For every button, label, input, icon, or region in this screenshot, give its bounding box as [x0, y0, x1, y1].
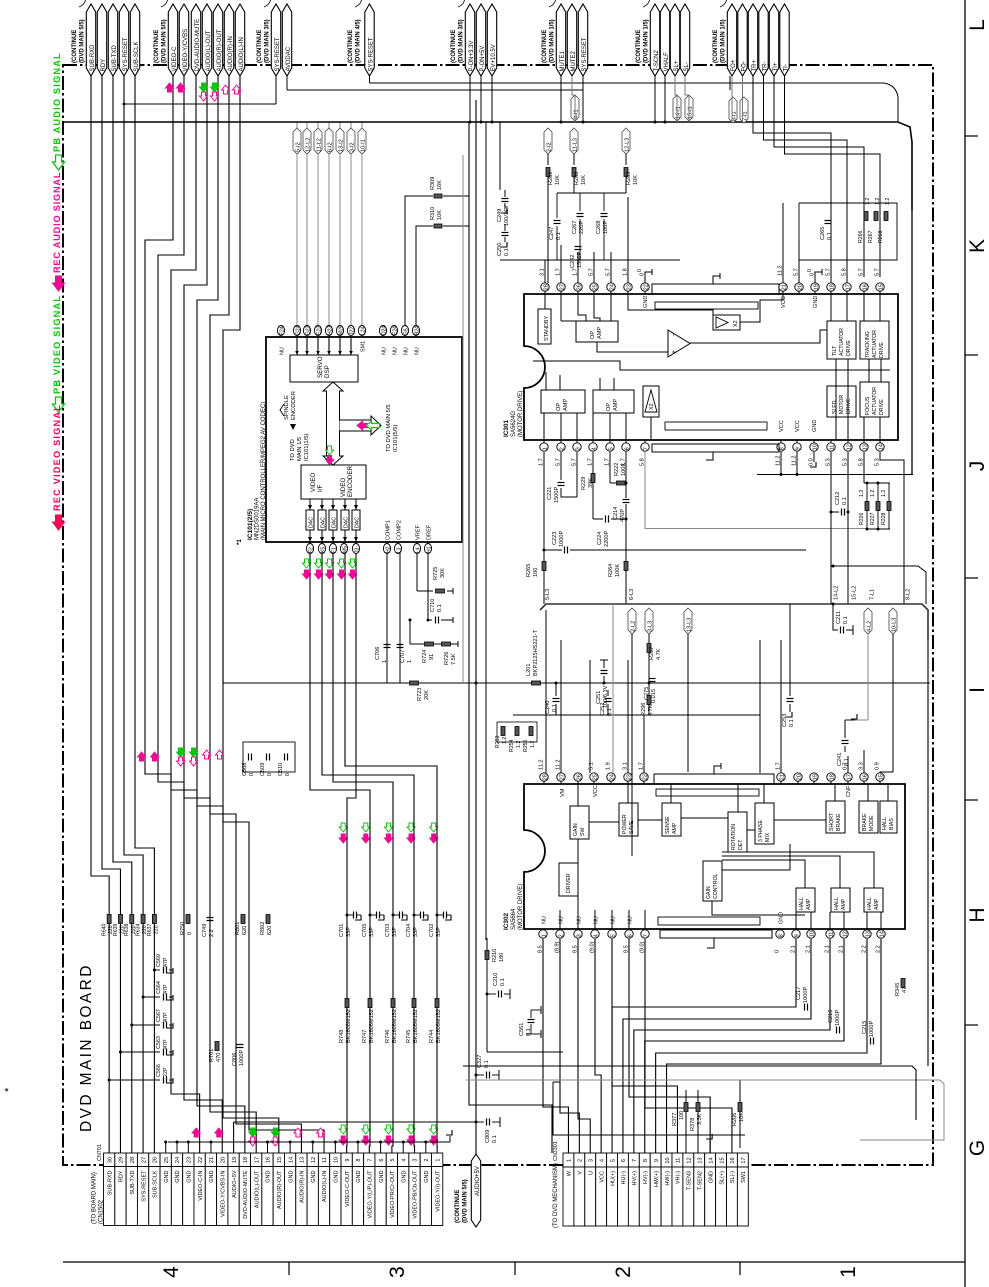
svg-text:(MOTOR DRIVE): (MOTOR DRIVE): [518, 884, 524, 930]
svg-text:(DVD MAIN 3/5): (DVD MAIN 3/5): [459, 19, 465, 63]
svg-text:VCC: VCC: [781, 296, 787, 308]
svg-text:0: 0: [775, 950, 781, 953]
svg-text:47: 47: [902, 987, 908, 993]
svg-text:0: 0: [285, 773, 291, 776]
block POWER SAVE: [619, 803, 638, 836]
svg-text:(DVD MAIN 5/5): (DVD MAIN 5/5): [463, 1179, 469, 1223]
svg-text:OP: OP: [556, 403, 562, 411]
block HALL BIAS: [880, 801, 897, 833]
svg-text:GND: GND: [311, 1170, 317, 1182]
top pin AVDDAC: [282, 4, 291, 76]
svg-text:18: 18: [243, 1157, 249, 1163]
svg-text:6: 6: [621, 1159, 627, 1162]
svg-text:3: 3: [588, 1159, 594, 1162]
capacitor C216 1000P: [836, 1027, 838, 1034]
svg-text:C701: C701: [339, 924, 345, 937]
svg-text:CNF: CNF: [846, 785, 852, 797]
svg-text:R288: R288: [574, 172, 580, 185]
wire main horiz y122: [63, 122, 912, 210]
svg-text:10K: 10K: [555, 175, 561, 185]
svg-text:NU: NU: [415, 347, 421, 355]
top pin VIDEO-C: [168, 4, 177, 76]
svg-text:1.2: 1.2: [865, 198, 871, 205]
svg-text:AUDIO+5V: AUDIO+5V: [232, 1170, 238, 1198]
svg-text:FO+: FO+: [731, 59, 737, 71]
resistor R701 470: [215, 1042, 219, 1051]
wire IC301 pin3: [576, 452, 578, 497]
arrows above CN1502 video in: [192, 1128, 200, 1137]
svg-text:AMP: AMP: [874, 898, 880, 910]
svg-text:GND: GND: [266, 1170, 272, 1182]
op-amp triangle (IC301): [668, 330, 690, 357]
top pin AUDIO(L)-OUT: [202, 4, 211, 76]
wires IC301 top feeds: [544, 260, 546, 283]
svg-text:4-L2: 4-L2: [867, 621, 873, 632]
svg-text:CN701: CN701: [97, 1144, 103, 1161]
svg-text:28: 28: [543, 284, 549, 290]
svg-text:GAIN: GAIN: [706, 886, 712, 899]
capacitor C210 0.1: [486, 993, 489, 996]
svg-text:0: 0: [267, 773, 273, 776]
svg-text:19: 19: [232, 1157, 238, 1163]
svg-text:BKP2125HS221-T: BKP2125HS221-T: [533, 629, 539, 676]
block OP AMP 2 (IC301): [541, 390, 585, 413]
top pin EV+10.5V: [487, 4, 496, 76]
svg-text:C224: C224: [597, 532, 603, 545]
svg-text:TO DVD: TO DVD: [290, 439, 296, 461]
svg-text:ROTATION: ROTATION: [731, 824, 737, 850]
capacitor C223 1000P: [564, 547, 566, 554]
svg-text:PB VIDEO SIGNAL: PB VIDEO SIGNAL: [52, 295, 62, 394]
svg-text:SUB-SCLK: SUB-SCLK: [153, 1170, 159, 1198]
svg-text:4.7K: 4.7K: [656, 648, 662, 660]
svg-text:MIX: MIX: [765, 832, 771, 842]
svg-text:1000P: 1000P: [835, 1010, 841, 1026]
wire sys-reset 4/5 link: [369, 76, 371, 83]
svg-text:10K: 10K: [581, 175, 587, 185]
svg-text:5.1: 5.1: [589, 762, 595, 770]
svg-text:AUDIO+5V: AUDIO+5V: [475, 1166, 481, 1196]
resistor R345 47: [901, 979, 905, 988]
svg-text:0.1: 0.1: [789, 719, 795, 727]
svg-text:DVD MAIN BOARD: DVD MAIN BOARD: [78, 963, 95, 1132]
svg-text:R310: R310: [430, 207, 436, 220]
svg-text:C806: C806: [232, 1053, 238, 1066]
svg-text:13-I2: 13-I2: [339, 139, 345, 152]
svg-text:0: 0: [637, 269, 643, 272]
svg-text:1.2: 1.2: [881, 490, 887, 497]
block TRACKING ACTUATOR DRIVE: [860, 321, 889, 359]
svg-text:BK1608M152: BK1608M152: [392, 1009, 398, 1043]
svg-text:SL-: SL-: [684, 62, 690, 71]
svg-text:2: 2: [578, 1159, 584, 1162]
capacitor C561 0.1: [531, 1009, 541, 1011]
wires SL to tags: [675, 76, 677, 122]
wires cap region: [557, 192, 626, 194]
svg-text:H23: H23: [327, 326, 333, 335]
wires hall signals to CN3301: [612, 939, 796, 1153]
svg-text:7.5K: 7.5K: [451, 653, 457, 665]
wires DAC outputs to video out bus: [310, 553, 370, 1153]
svg-text:MUTE1: MUTE1: [560, 51, 566, 72]
wire GND bus CN1502: [168, 1141, 450, 1143]
svg-text:VH(-): VH(-): [676, 1171, 682, 1184]
svg-text:11-L3: 11-L3: [573, 138, 579, 152]
svg-text:R345: R345: [895, 983, 901, 996]
svg-text:C251: C251: [596, 691, 602, 704]
svg-text:R637: R637: [147, 923, 153, 936]
svg-text:(DVD MAIN 1/5): (DVD MAIN 1/5): [550, 19, 556, 63]
connector CN3301 (TO DVD MECHANISM): [563, 1153, 574, 1167]
svg-text:0.1: 0.1: [842, 497, 848, 505]
resistor R723 20K: [410, 681, 419, 685]
svg-text:24: 24: [609, 284, 615, 290]
top pin AUDIO(R)-IN: [224, 4, 233, 76]
capacitors C563-C569: [154, 969, 160, 971]
capacitor C809 0.1: [476, 1121, 484, 1123]
capacitor C806 1000P: [237, 1044, 244, 1046]
svg-text:D24: D24: [381, 326, 387, 335]
top pin SYS-RESET: [578, 4, 587, 76]
svg-text:(DVD MAIN 1/5): (DVD MAIN 1/5): [644, 19, 650, 63]
junction dots y122: [560, 121, 563, 124]
ic IC101 top pins: [277, 326, 284, 336]
svg-text:AMP: AMP: [563, 399, 569, 411]
svg-text:M25: M25: [338, 325, 344, 335]
wire vertical 500: [499, 122, 501, 190]
svg-text:7: 7: [643, 447, 649, 450]
svg-text:9: 9: [345, 1158, 351, 1161]
svg-text:VIDEO-PR/Cr-OUT: VIDEO-PR/Cr-OUT: [390, 1170, 396, 1218]
svg-text:C250: C250: [497, 243, 503, 256]
pad bar IC302 top: [656, 789, 759, 796]
svg-text:21: 21: [209, 1157, 215, 1163]
block HALL AMP 3: [864, 888, 883, 912]
svg-text:R264: R264: [608, 564, 614, 577]
top pin TR-: [759, 4, 768, 76]
svg-text:SUB-TXD: SUB-TXD: [112, 44, 118, 71]
block GAIN SW: [570, 806, 589, 839]
svg-text:MAIN 1/5: MAIN 1/5: [297, 437, 303, 461]
svg-text:47P: 47P: [163, 1039, 169, 1049]
top pin P-ON+3.3V: [465, 4, 474, 76]
svg-text:ACTUATOR: ACTUATOR: [872, 330, 878, 358]
svg-text:3: 3: [386, 1266, 409, 1278]
svg-text:C249: C249: [497, 209, 503, 222]
svg-text:8: 8: [643, 1159, 649, 1162]
svg-text:NU: NU: [628, 916, 634, 924]
block ROTATION DET: [728, 812, 747, 852]
svg-text:C223: C223: [552, 532, 558, 545]
svg-text:18: 18: [829, 284, 835, 290]
capacitor C749 2.2: [207, 917, 214, 919]
top pin SUB-RXD: [86, 4, 95, 76]
top pin SUB-SCLK: [130, 4, 139, 76]
svg-text:0.1: 0.1: [500, 978, 506, 986]
svg-text:R801: R801: [235, 922, 241, 935]
svg-text:1: 1: [407, 660, 413, 663]
net tag 2-L2: [628, 608, 636, 634]
svg-text:G23: G23: [305, 325, 311, 335]
svg-text:R378: R378: [690, 1118, 696, 1131]
net tag 15-I1: [685, 95, 693, 121]
svg-text:10K: 10K: [633, 175, 639, 185]
svg-text:2: 2: [612, 1266, 635, 1278]
wire AUDIO+5V rail: [475, 1122, 477, 1154]
resistors R226 R227 R228 1.2: [866, 482, 890, 484]
wire tag line y604: [540, 604, 928, 640]
svg-text:AUDIO(R)-OUT: AUDIO(R)-OUT: [217, 29, 223, 71]
svg-text:G24: G24: [295, 325, 301, 335]
svg-text:J3: J3: [354, 548, 360, 554]
svg-text:620: 620: [267, 926, 273, 935]
svg-text:*1: *1: [237, 539, 243, 545]
svg-text:COMP2: COMP2: [397, 520, 403, 540]
svg-text:GND: GND: [187, 1170, 193, 1182]
svg-text:1: 1: [567, 1159, 573, 1162]
svg-text:ENCODER: ENCODER: [347, 466, 354, 497]
svg-text:(CONTINUE: (CONTINUE: [542, 30, 548, 63]
svg-text:9: 9: [654, 1159, 660, 1162]
svg-text:14: 14: [879, 931, 885, 937]
svg-text:HW(-): HW(-): [665, 1171, 671, 1186]
svg-text:T-SEN3: T-SEN3: [687, 1171, 693, 1190]
svg-text:TO DVD MAIN 5/5: TO DVD MAIN 5/5: [386, 404, 392, 452]
svg-text:H2: H2: [385, 546, 391, 553]
svg-text:11: 11: [676, 1158, 682, 1164]
svg-text:CN3301: CN3301: [553, 1141, 559, 1161]
top pin SL-: [680, 4, 689, 76]
svg-text:0: 0: [807, 269, 813, 272]
svg-text:R309: R309: [430, 177, 436, 190]
block GAIN CONTROL: [703, 861, 722, 901]
top pin T-SCN2: [650, 4, 659, 76]
svg-text:C508: C508: [242, 763, 248, 776]
svg-text:0.1: 0.1: [504, 248, 510, 256]
svg-text:20: 20: [797, 284, 803, 290]
svg-text:NU: NU: [594, 916, 600, 924]
net tag 11-L3: [570, 128, 578, 154]
bus wires into IC101 servo: [296, 122, 298, 128]
svg-text:8: 8: [356, 1158, 362, 1161]
arrow SERVO-VIDEO bus: [323, 382, 343, 465]
block HALL AMP 2: [831, 888, 850, 912]
ic IC301 top pin row: [541, 283, 549, 291]
top pin AUDIO(R)-OUT: [213, 4, 222, 76]
svg-text:17: 17: [254, 1157, 260, 1163]
svg-text:12: 12: [687, 1157, 693, 1163]
svg-text:DRIVE: DRIVE: [879, 399, 885, 415]
svg-text:27: 27: [141, 1157, 147, 1163]
top pin SYS-RESET: [119, 4, 128, 76]
svg-text:U: U: [588, 1171, 594, 1175]
svg-text:MOTOR: MOTOR: [839, 395, 845, 414]
svg-text:NU: NU: [404, 347, 410, 355]
svg-text:R640: R640: [102, 923, 108, 936]
svg-text:(TO BOARD MAIN): (TO BOARD MAIN): [92, 1172, 98, 1224]
svg-text:(DVD MAIN 5/5): (DVD MAIN 5/5): [80, 19, 86, 63]
wires FO/TR/TI to IC301: [753, 122, 831, 277]
svg-text:C241: C241: [837, 753, 843, 766]
capacitor C252 0.1: [605, 698, 612, 700]
svg-text:SA5664: SA5664: [511, 908, 517, 930]
resistor R206 10K: [738, 1103, 742, 1112]
resistors R253 R254 R255 1.2: [501, 727, 505, 736]
net tag 10-L3: [889, 608, 897, 634]
svg-text:10: 10: [812, 444, 818, 450]
svg-text:SL(+): SL(+): [719, 1171, 725, 1185]
svg-text:2-L2: 2-L2: [631, 621, 637, 632]
resistor R222 100K: [609, 452, 611, 483]
svg-text:16: 16: [730, 1157, 736, 1163]
svg-text:G5: G5: [403, 328, 409, 335]
wire y683 junctions: [475, 682, 478, 685]
capacitor C221 1500P: [560, 452, 562, 480]
svg-text:22: 22: [642, 774, 648, 780]
svg-text:R748: R748: [339, 1030, 345, 1043]
svg-text:HALL: HALL: [882, 817, 888, 830]
svg-text:33P: 33P: [346, 927, 352, 937]
svg-text:100/16V: 100/16V: [504, 205, 510, 226]
svg-text:100: 100: [679, 1111, 685, 1120]
svg-text:VCC: VCC: [593, 785, 599, 797]
svg-text:1500P: 1500P: [554, 487, 560, 503]
wires UVW to CN3301: [543, 939, 568, 1153]
svg-text:47P: 47P: [163, 1012, 169, 1022]
svg-text:(DVD MAIN 1/5): (DVD MAIN 1/5): [721, 19, 727, 63]
svg-text:STANDBY: STANDBY: [544, 316, 550, 341]
svg-text:CONTROL: CONTROL: [713, 874, 719, 899]
svg-text:16: 16: [862, 284, 868, 290]
svg-text:1000P: 1000P: [869, 1021, 875, 1037]
svg-text:10K: 10K: [437, 210, 443, 220]
svg-text:L24: L24: [360, 326, 366, 335]
arrows below AUDIO OUT pins: [200, 83, 208, 92]
wire VCC line y474: [757, 474, 913, 476]
svg-text:1.2: 1.2: [870, 490, 876, 497]
svg-text:18: 18: [829, 774, 835, 780]
svg-text:180: 180: [499, 953, 505, 962]
svg-text:25: 25: [592, 284, 598, 290]
svg-text:24: 24: [609, 774, 615, 780]
svg-text:13: 13: [300, 1157, 306, 1163]
svg-text:9: 9: [794, 934, 800, 937]
svg-text:AUDIO(R)-IN: AUDIO(R)-IN: [300, 1170, 306, 1202]
block SERVO DSP: [290, 355, 358, 382]
svg-text:TILT: TILT: [832, 345, 838, 356]
svg-text:25: 25: [592, 774, 598, 780]
svg-text:10K: 10K: [437, 180, 443, 190]
svg-text:E24: E24: [392, 326, 398, 335]
block TILT ACTUATOR DRIVE: [827, 321, 856, 359]
svg-text:4: 4: [160, 1266, 183, 1278]
svg-text:25: 25: [164, 1157, 170, 1163]
svg-text:IC101(5/5): IC101(5/5): [393, 425, 399, 452]
svg-text:8-L2: 8-L2: [906, 589, 912, 600]
svg-text:C706: C706: [375, 647, 381, 660]
svg-text:1: 1: [382, 660, 388, 663]
arrows mid audio in wires: [203, 750, 211, 759]
top pin TI+: [769, 4, 778, 76]
svg-text:R296: R296: [641, 703, 647, 716]
top pin SYS-RESET: [271, 4, 280, 76]
svg-text:13-L3: 13-L3: [687, 618, 693, 632]
arrows mid video wires: [138, 752, 146, 761]
svg-text:T-SEN2: T-SEN2: [697, 1171, 703, 1190]
svg-text:DAC: DAC: [332, 517, 338, 528]
svg-text:DRIVER: DRIVER: [566, 873, 572, 893]
svg-text:HALL: HALL: [867, 897, 873, 910]
svg-text:GND: GND: [379, 1170, 385, 1182]
svg-text:R229: R229: [581, 477, 587, 490]
svg-text:R639: R639: [113, 923, 119, 936]
ic IC302 bottom pin row: [539, 930, 547, 938]
beads R744-R748: [345, 999, 349, 1008]
svg-text:6: 6: [624, 447, 630, 450]
block DRIVER: [559, 863, 578, 896]
svg-text:MN2DS0019AA: MN2DS0019AA: [255, 498, 261, 540]
svg-text:22: 22: [643, 284, 649, 290]
svg-text:VIDEO-PB/Cb-OUT: VIDEO-PB/Cb-OUT: [413, 1170, 419, 1219]
svg-text:0.1: 0.1: [843, 616, 849, 624]
svg-text:SL(-): SL(-): [730, 1171, 736, 1183]
svg-text:4: 4: [593, 934, 599, 937]
svg-text:23: 23: [626, 284, 632, 290]
svg-text:BK1608M152: BK1608M152: [346, 1009, 352, 1043]
capacitor C224 2200P: [593, 518, 603, 520]
gnd at CN3301 pin14: [709, 1140, 711, 1153]
capacitor C212 0.1: [831, 511, 839, 513]
capacitor C267 220P: [577, 213, 584, 215]
svg-text:R268: R268: [878, 230, 884, 243]
svg-text:10: 10: [665, 1157, 671, 1163]
svg-text:3 PHASE: 3 PHASE: [758, 820, 764, 842]
wire loop bottom right: [553, 1082, 745, 1135]
wires COMP pins: [386, 553, 388, 683]
svg-text:8: 8: [778, 934, 784, 937]
svg-text:M5: M5: [342, 546, 348, 553]
svg-text:(TO DVD MECHANISM): (TO DVD MECHANISM): [553, 1163, 559, 1228]
svg-text:28: 28: [130, 1157, 136, 1163]
svg-text:P-ON+3.3V: P-ON+3.3V: [469, 41, 475, 72]
top pin VHALF: [660, 4, 669, 76]
svg-text:6: 6: [627, 934, 633, 937]
connector CONTINUE DVD MAIN 5/5 AUDIO+5V: [471, 1154, 480, 1227]
svg-text:VIDEO-Y(L/P)-OUT: VIDEO-Y(L/P)-OUT: [367, 1170, 373, 1219]
svg-text:13: 13: [865, 931, 871, 937]
svg-text:V: V: [578, 1171, 584, 1175]
svg-text:33P: 33P: [436, 927, 442, 937]
svg-text:14: 14: [288, 1157, 294, 1163]
svg-text:T-SCN2: T-SCN2: [654, 50, 660, 72]
svg-text:SYS-RESET: SYS-RESET: [582, 37, 588, 71]
svg-text:100: 100: [533, 568, 539, 577]
svg-text:AVDDAC: AVDDAC: [286, 46, 292, 71]
svg-text:GND: GND: [175, 1170, 181, 1182]
svg-text:DAC: DAC: [321, 517, 327, 528]
svg-text:VIDEO-Y/CVBS: VIDEO-Y/CVBS: [183, 29, 189, 72]
svg-text:C510: C510: [278, 763, 284, 776]
arrows mid audio out wires: [177, 748, 185, 757]
svg-text:L: L: [966, 19, 989, 31]
svg-text:VHALF: VHALF: [664, 52, 670, 72]
svg-text:1000P: 1000P: [803, 987, 809, 1003]
svg-text:C215: C215: [862, 1021, 868, 1034]
board boundary chain line: [63, 65, 933, 1165]
svg-text:C567: C567: [156, 1009, 162, 1022]
svg-text:(CONTINUE: (CONTINUE: [713, 30, 719, 63]
svg-text:SYS-RESET: SYS-RESET: [275, 37, 281, 71]
